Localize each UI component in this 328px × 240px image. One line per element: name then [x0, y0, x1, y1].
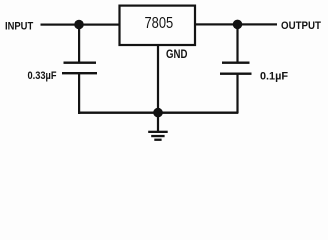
capacitor C2 0.1uF bottom plate — [220, 73, 252, 75]
junction ground node — [153, 108, 163, 118]
svg-text:INPUT: INPUT — [5, 20, 33, 32]
svg-text:7805: 7805 — [145, 15, 174, 32]
ground symbol bar 3 — [154, 139, 161, 141]
wire output horizontal — [195, 23, 277, 25]
svg-text:0.1µF: 0.1µF — [260, 70, 288, 82]
wire GND pin stem — [157, 45, 159, 113]
wire C1 to bottom rail — [78, 74, 80, 114]
capacitor C1 0.33uF bottom plate — [62, 72, 97, 74]
junction input node — [74, 20, 84, 30]
junction output node — [233, 20, 243, 30]
wire output junction to C2 — [236, 24, 238, 62]
capacitor C1 0.33uF top plate — [64, 62, 97, 64]
wire ground stem — [157, 113, 159, 132]
wire input junction to C1 — [78, 25, 80, 63]
svg-text:OUTPUT: OUTPUT — [281, 20, 321, 32]
ground symbol bar 1 — [148, 131, 168, 133]
wire input horizontal — [41, 24, 119, 26]
ground symbol bar 2 — [151, 135, 164, 137]
capacitor C2 0.1uF top plate — [222, 62, 250, 64]
svg-text:GND: GND — [166, 47, 188, 61]
wire C2 to bottom rail — [236, 75, 238, 114]
svg-text:0.33µF: 0.33µF — [28, 70, 57, 82]
regulator U1 7805 box — [120, 6, 196, 45]
wire bottom rail — [78, 112, 238, 114]
